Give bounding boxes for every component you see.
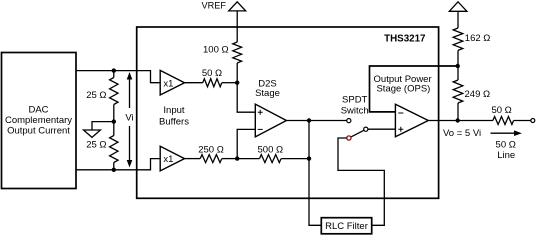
wire: SPDT throw 2 to RLC filter [338, 138, 384, 225]
SPDT switch throw 2 (from RLC filter) [347, 136, 351, 140]
svg-text:x1: x1 [163, 78, 173, 89]
node: D2S inverting input junction [235, 156, 239, 160]
svg-text:Stage (OPS): Stage (OPS) [376, 83, 430, 94]
resistor R 162 ohm [453, 28, 490, 66]
svg-text:x1: x1 [163, 154, 173, 165]
op-amp buffer x1 lower [160, 146, 184, 171]
label: Input Buffers [159, 105, 189, 128]
svg-text:100 Ω: 100 Ω [203, 45, 229, 56]
resistor R 250 ohm [198, 145, 237, 163]
RLC Filter box [321, 218, 371, 234]
resistor R 25 ohm lower [86, 122, 118, 170]
svg-text:Vi: Vi [125, 113, 133, 124]
svg-text:250 Ω: 250 Ω [198, 145, 224, 156]
svg-text:Vo = 5 Vi: Vo = 5 Vi [443, 128, 481, 139]
ground [84, 122, 114, 138]
arrow: to 50 ohm line [491, 130, 522, 136]
node: 162/249 feedback junction [456, 64, 460, 68]
wire: 100 ohm to D2S + input [237, 63, 255, 112]
svg-text:SPDT: SPDT [342, 95, 368, 106]
svg-text:Buffers: Buffers [159, 117, 189, 128]
svg-text:50 Ω: 50 Ω [491, 105, 511, 116]
svg-text:Line: Line [497, 150, 515, 161]
svg-text:249 Ω: 249 Ω [465, 89, 491, 100]
SPDT switch pole [364, 127, 368, 131]
wire: D2S output to SPDT throw 1 [286, 120, 346, 122]
wire: OPS output [428, 120, 493, 122]
SPDT switch lever [351, 130, 364, 137]
svg-text:25 Ω: 25 Ω [86, 90, 106, 101]
wire: VREF line down to D2S + input [236, 11, 238, 42]
svg-text:VREF: VREF [201, 1, 226, 11]
svg-text:50 Ω: 50 Ω [202, 68, 222, 79]
DAC box [2, 53, 77, 189]
resistor R 500 ohm (feedback) [237, 145, 309, 163]
wire: junction up to D2S - input [237, 129, 255, 158]
svg-text:25 Ω: 25 Ω [86, 139, 106, 150]
node: Vo junction [456, 118, 460, 122]
wire: DAC bottom output to lower buffer [76, 159, 160, 170]
OPS block box (Output Power Stage) [370, 66, 458, 112]
wire: SPDT pole to OPS + input [368, 128, 395, 130]
wire: DAC top output to upper buffer [76, 71, 160, 83]
op-amp D2S stage [255, 104, 286, 137]
node: D2S output junction [307, 118, 311, 122]
label: SPDT Switch [341, 95, 369, 117]
terminal: output port [531, 119, 535, 123]
wire: D2S output down to RLC filter [309, 121, 321, 226]
SPDT switch throw 1 (from D2S) [347, 119, 351, 123]
svg-text:DAC: DAC [28, 104, 48, 115]
node: midpoint of 25-ohm divider [112, 119, 116, 123]
resistor R 50 ohm (output line) [491, 105, 530, 124]
svg-text:Input: Input [163, 105, 184, 116]
node: feedback junction on output line [307, 156, 311, 160]
THS3217 main box [137, 27, 439, 198]
node: DAC top output junction [112, 68, 116, 72]
resistor R 25 ohm upper [86, 71, 118, 122]
node: 50-ohm / 100-ohm junction [235, 81, 239, 85]
resistor R 100 ohm [203, 42, 242, 63]
resistor R 50 ohm (upper signal path) [185, 68, 238, 87]
label: 50 ohm Line [496, 139, 516, 161]
op-amp OPS [395, 104, 428, 137]
svg-text:162 Ω: 162 Ω [465, 33, 491, 44]
svg-text:50 Ω: 50 Ω [496, 139, 516, 150]
op-amp buffer x1 upper [160, 70, 184, 95]
svg-text:THS3217: THS3217 [384, 34, 426, 45]
wire: arrow down to 162 ohm [457, 11, 459, 28]
resistor R 249 ohm [453, 66, 490, 121]
svg-text:Stage: Stage [255, 88, 280, 99]
wire: lower buffer output [185, 158, 201, 160]
node: DAC bottom output junction [112, 168, 116, 172]
label: D2S Stage [255, 78, 280, 99]
svg-text:Output Current: Output Current [7, 125, 70, 136]
svg-text:500 Ω: 500 Ω [258, 145, 284, 156]
supply arrow (top right) [449, 2, 467, 12]
svg-text:Switch: Switch [341, 105, 369, 116]
VREF supply arrow [201, 1, 245, 11]
Vi arrow (input voltage annotation) [125, 72, 133, 168]
svg-text:RLC Filter: RLC Filter [325, 221, 368, 232]
